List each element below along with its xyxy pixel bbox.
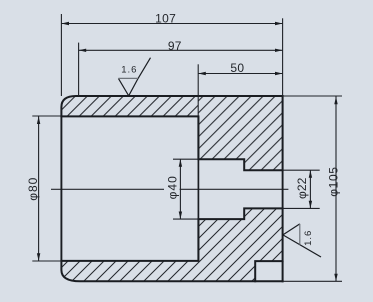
top cross-section hatch fill right block <box>198 96 282 170</box>
dimension phi80: dimension line <box>38 116 40 261</box>
dimension 50: right arrow <box>275 72 283 75</box>
dimension phi22: top arrow <box>309 170 312 178</box>
surface finish symbol top: right leg <box>129 78 138 95</box>
dimension 50: left extension line <box>197 64 199 116</box>
dimension phi40: dimension line <box>179 159 181 219</box>
dimension 107: right arrow <box>275 22 283 25</box>
dimension phi105: bottom arrow <box>334 274 337 282</box>
dimension phi40: bottom extension line <box>173 218 198 220</box>
surface finish symbol top: extension leg <box>138 58 150 79</box>
dimension 50: left arrow <box>198 72 206 75</box>
dimension phi105: top arrow <box>334 97 337 105</box>
bottom edge under corner notch <box>254 280 283 282</box>
dimension phi80: top extension line <box>32 115 61 117</box>
dimension phi105: top extension line <box>283 95 342 97</box>
dimension 107: left arrow <box>61 22 69 25</box>
surface finish symbol bottom-right: upper leg <box>283 224 300 235</box>
dimension phi40: top arrow <box>179 159 182 167</box>
bore opening edge (left face) <box>60 116 62 261</box>
dimension phi105: bottom extension line <box>283 280 342 282</box>
dimension 50: dimension line <box>198 73 282 75</box>
top cross-section hatch fill left band <box>61 96 198 116</box>
svg-text:φ22: φ22 <box>295 177 309 199</box>
svg-text:φ80: φ80 <box>26 177 40 201</box>
svg-text:50: 50 <box>230 61 244 75</box>
dimension phi80: top arrow <box>37 116 40 124</box>
surface finish symbol top: grey bar <box>118 77 138 79</box>
dimension phi22: bottom extension line <box>283 207 320 209</box>
dimension 107: dimension line <box>61 23 282 25</box>
dimension phi22: top extension line <box>283 169 320 171</box>
dimension phi80: bottom extension line <box>32 260 61 262</box>
svg-text:1.6: 1.6 <box>121 64 137 75</box>
bore end face line <box>197 116 199 261</box>
surface finish symbol bottom-right: grey bar <box>299 224 301 245</box>
centerline <box>51 188 288 190</box>
dimension phi40: bottom arrow <box>179 212 182 220</box>
dimension phi40: text mask <box>164 185 180 193</box>
dimension right common extension line <box>282 18 284 96</box>
dimension phi80: bottom arrow <box>37 253 40 261</box>
svg-text:97: 97 <box>168 39 182 53</box>
dimension 107: left extension line <box>60 14 62 96</box>
right face edge across phi22 hole <box>282 170 284 208</box>
right face edge beside corner notch <box>282 261 284 282</box>
dimension phi105: dimension line <box>335 96 337 281</box>
svg-text:107: 107 <box>155 12 176 26</box>
surface finish symbol bottom-right: leader leg <box>283 235 321 257</box>
surface finish symbol top: left leg <box>118 78 128 95</box>
dimension 97: right arrow <box>275 49 283 52</box>
dimension 97: dimension line <box>79 49 283 51</box>
dimension 97: left extension line <box>78 43 80 96</box>
dimension phi40: top extension line <box>173 158 198 160</box>
svg-text:φ105: φ105 <box>326 166 340 196</box>
svg-text:φ40: φ40 <box>166 175 180 199</box>
dimension phi22: bottom arrow <box>309 201 312 209</box>
dimension 97: left arrow <box>79 49 87 52</box>
bottom hatched cross-section <box>61 208 282 281</box>
dimension phi22: dimension line <box>309 170 311 208</box>
svg-text:1.6: 1.6 <box>303 230 314 246</box>
top cross-section outline <box>61 96 282 170</box>
